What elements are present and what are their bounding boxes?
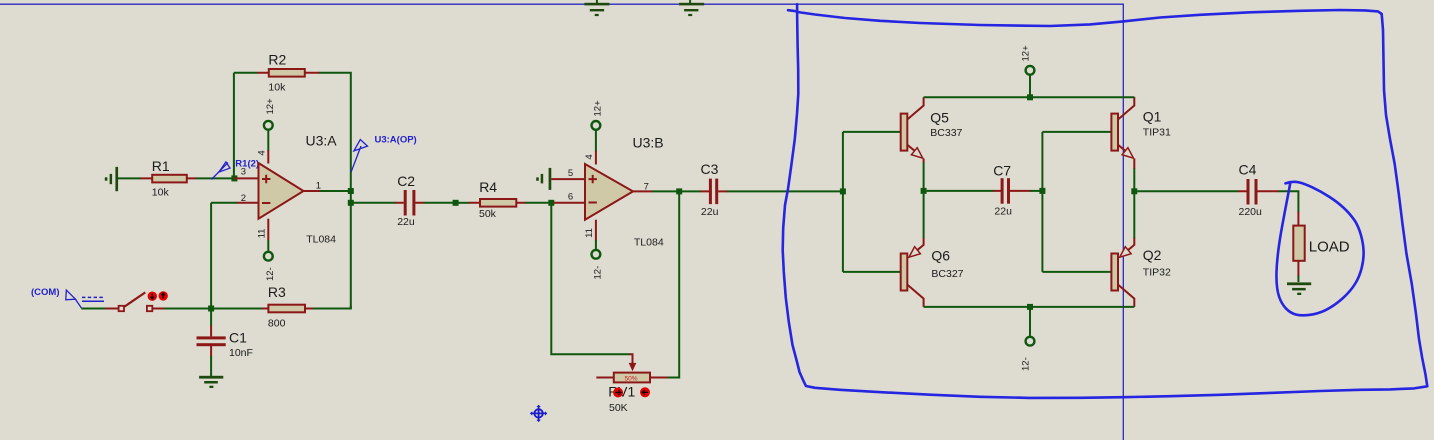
resistor R1 pins [141, 177, 197, 179]
LOAD pins [1297, 212, 1299, 276]
wire node B to R3 [211, 308, 262, 310]
wire C4 to LOAD corner [1279, 191, 1299, 212]
svg-text:11: 11 [257, 229, 268, 239]
right bases vertical wire [1041, 132, 1043, 272]
svg-text:C4: C4 [1239, 162, 1257, 178]
svg-text:BC327: BC327 [931, 268, 963, 280]
svg-text:Q6: Q6 [931, 248, 950, 264]
pin 2 stub [237, 202, 259, 204]
op-amp U3:A [259, 133, 338, 246]
bottom supply rail [924, 306, 1135, 308]
svg-text:12-: 12- [1021, 357, 1032, 371]
ground (top, near U3:B supply) [584, 0, 609, 16]
svg-text:7: 7 [644, 181, 649, 192]
origin marker [530, 405, 547, 422]
op-amp U3:A power 12+ terminal [256, 98, 276, 164]
ground (below LOAD) [1287, 282, 1311, 295]
wire R2 top right + right vertical to output node [319, 73, 351, 188]
svg-text:4: 4 [584, 154, 595, 159]
svg-text:TL084: TL084 [306, 234, 336, 246]
power terminal 12+ [1021, 45, 1035, 97]
svg-text:R3: R3 [268, 284, 286, 300]
wire to Q6 base [843, 271, 901, 273]
svg-text:BC337: BC337 [930, 127, 962, 139]
svg-text:R1(2): R1(2) [235, 159, 259, 170]
resistor R3 [268, 305, 305, 313]
wire C7 to node G [1030, 190, 1042, 192]
transistor Q6 [901, 238, 964, 307]
wire node down to R3 [350, 203, 352, 309]
pin 1 output stub [304, 190, 322, 192]
output node junction [348, 188, 354, 194]
freehand blue box annotation [783, 4, 1428, 398]
pin 3 stub [234, 177, 259, 179]
wire output to node [320, 190, 351, 192]
node D junction [676, 188, 682, 194]
rail junction [1027, 94, 1033, 100]
capacitor C3 [701, 161, 719, 218]
mid junction [453, 200, 459, 206]
pin 5 stub [551, 178, 585, 180]
pin 6 stub [554, 202, 586, 204]
wire RV1 right to node D vertical [668, 194, 680, 378]
capacitor C1 pins [210, 326, 212, 357]
wire node F to C7 [927, 190, 994, 192]
RV1 wiper arrow [629, 354, 632, 364]
voltage probe U3:A(OP) [351, 135, 417, 173]
wire ground to R1 [118, 177, 141, 179]
node C junction (pin6 / feedback) [548, 200, 554, 206]
wire R2 left vertical [233, 73, 235, 176]
wire C3 to node E [727, 190, 843, 192]
ground (top, second) [679, 0, 704, 16]
transistor Q5 [901, 97, 963, 163]
capacitor C2 pins [395, 202, 424, 204]
svg-text:Q5: Q5 [930, 110, 949, 126]
svg-text:12+: 12+ [1021, 45, 1032, 62]
svg-text:TL084: TL084 [634, 236, 664, 248]
svg-text:U3:A(OP): U3:A(OP) [375, 135, 417, 146]
capacitor C4 pins [1238, 190, 1279, 192]
svg-text:10k: 10k [268, 82, 286, 94]
wire Q2 emitter up to node H [1133, 194, 1135, 238]
wire C1 to ground [210, 356, 212, 377]
pin 7 output stub [633, 190, 653, 192]
wire switch to node B [164, 308, 211, 310]
op-amp U3:B [585, 135, 664, 249]
switch toggle buttons [148, 291, 168, 301]
wire node to C2 [354, 202, 396, 204]
resistor R3 pins [262, 308, 314, 310]
ground (below C1) [199, 376, 223, 388]
svg-text:6: 6 [568, 191, 573, 202]
svg-text:50K: 50K [609, 402, 628, 414]
op-amp U3:B pin 11 + 12- terminal [584, 220, 603, 280]
op-amp U3:A pin 11 + 12- terminal [257, 219, 276, 281]
node A junction (pin3) [231, 175, 237, 181]
wire junction to R4 [456, 202, 470, 204]
op-amp U3:B power 12+ terminal [584, 100, 604, 165]
capacitor C2 [397, 173, 415, 228]
capacitor C7 [993, 163, 1012, 218]
resistor R1 [152, 175, 187, 183]
svg-text:TIP32: TIP32 [1143, 267, 1171, 279]
svg-text:220u: 220u [1239, 206, 1263, 218]
svg-text:10nF: 10nF [229, 347, 253, 359]
feedback: node C down, across to RV1 wiper [551, 205, 630, 354]
wire to Q2 base [1042, 271, 1111, 273]
capacitor C7 pins [993, 190, 1031, 192]
wire R4 to node C [525, 202, 551, 204]
svg-text:800: 800 [268, 318, 286, 330]
thin blue frame line (horizontal + vertical) [0, 4, 1123, 440]
svg-text:11: 11 [584, 228, 595, 238]
wire R1 to node A [196, 177, 234, 179]
resistor R4 [480, 199, 516, 207]
voltage probe R1(2) [211, 159, 259, 180]
node G junction (right bases) [1039, 188, 1045, 194]
(COM) probe label [31, 287, 104, 309]
svg-text:TIP31: TIP31 [1143, 127, 1171, 139]
ground (pin 5, sideways) [536, 168, 551, 190]
wire C2 to mid junction [424, 202, 456, 204]
node junction (to R3/C2) [348, 200, 354, 206]
node E junction (bases) [840, 188, 846, 194]
svg-text:U3:B: U3:B [633, 135, 664, 151]
wire R3 to right vertical [313, 306, 351, 309]
svg-text:12-: 12- [265, 267, 276, 281]
svg-text:12+: 12+ [593, 100, 604, 117]
resistor LOAD [1293, 226, 1304, 261]
left vertical wire (pin2 down to switch node) [210, 203, 212, 309]
svg-text:C3: C3 [701, 161, 719, 177]
transistor Q2 [1111, 238, 1171, 307]
node B junction [208, 306, 214, 312]
capacitor C1 top wire [210, 309, 212, 327]
potentiometer RV1 [596, 373, 668, 414]
svg-text:Q1: Q1 [1143, 109, 1162, 125]
top supply rail [924, 96, 1135, 98]
wire Q6 emitter up to node F [923, 194, 925, 238]
freehand loop around LOAD [1276, 182, 1363, 316]
svg-text:C7: C7 [993, 163, 1011, 179]
power terminal 12- [1021, 307, 1035, 371]
capacitor C1 [197, 329, 253, 359]
ground (left of R1, sideways) [105, 167, 118, 191]
svg-text:C1: C1 [229, 329, 247, 345]
wire pin7 to node D [652, 190, 679, 192]
wire to Q1 base [1042, 131, 1111, 133]
svg-text:C2: C2 [397, 173, 415, 189]
node H junction (output) [1131, 188, 1137, 194]
resistor R2 [269, 69, 305, 77]
wire R2 top left [234, 72, 258, 74]
node F junction (emitters) [921, 188, 927, 194]
svg-text:22u: 22u [701, 206, 719, 218]
svg-text:R1: R1 [152, 158, 170, 174]
svg-text:U3:A: U3:A [306, 133, 338, 149]
transistor Q1 [1111, 97, 1171, 169]
svg-text:50%: 50% [625, 375, 638, 382]
svg-text:1: 1 [316, 181, 321, 192]
resistor R4 pins [469, 202, 526, 204]
svg-text:Q2: Q2 [1143, 247, 1162, 263]
svg-text:(COM): (COM) [31, 287, 60, 298]
svg-text:22u: 22u [397, 216, 415, 228]
wire Q5 emitter down to node F [923, 163, 925, 191]
svg-text:2: 2 [241, 193, 246, 204]
svg-text:10k: 10k [152, 186, 170, 198]
bases vertical wire [842, 132, 844, 272]
svg-text:LOAD: LOAD [1309, 239, 1350, 256]
wire pin2 to left vertical [211, 202, 237, 204]
capacitor C4 [1239, 162, 1263, 218]
svg-text:R2: R2 [268, 52, 286, 68]
svg-text:22u: 22u [994, 205, 1012, 217]
resistor R2 pins [257, 72, 319, 74]
wire to Q5 base [843, 131, 901, 133]
wire LOAD to ground [1297, 276, 1299, 282]
capacitor C3 pins [679, 190, 701, 192]
svg-text:12+: 12+ [265, 98, 276, 115]
switch right pin [153, 308, 165, 310]
switch left pin [105, 308, 118, 310]
RV1 toggle buttons [613, 387, 650, 397]
wire output node down [350, 191, 352, 203]
wire COM to switch [81, 308, 106, 310]
svg-text:4: 4 [256, 150, 267, 155]
svg-text:50k: 50k [479, 208, 497, 220]
svg-text:5: 5 [568, 168, 573, 179]
svg-text:12-: 12- [593, 266, 604, 280]
rail junction [1027, 304, 1033, 310]
wire Q1 emitter down to node H [1133, 169, 1135, 192]
svg-text:R4: R4 [479, 179, 497, 195]
wire node H to C4 [1137, 190, 1238, 192]
switch SW1 [119, 292, 153, 311]
